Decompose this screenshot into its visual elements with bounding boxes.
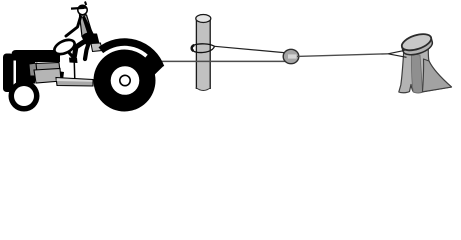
driver hips on seat [82, 33, 96, 42]
driver torso (gray jacket) [80, 15, 93, 37]
wire: rope from tractor drawbar to ring [140, 60, 295, 62]
rear fender [101, 42, 163, 75]
driver legs [69, 39, 90, 64]
stump (tree stump with roots) [399, 31, 452, 93]
steering wheel [52, 37, 77, 60]
driver arm [66, 17, 81, 36]
ring (shackle joining ropes) [283, 49, 299, 63]
wire: rope from post loop to ring [215, 46, 289, 53]
tractor seat [84, 34, 100, 45]
wire: rope from ring to stump [297, 54, 388, 57]
front wheel [9, 81, 40, 112]
engine gray boxes [29, 63, 61, 84]
post (vertical pole) [196, 15, 211, 91]
driver head with cap [71, 2, 87, 15]
running board / step [56, 78, 93, 87]
driver back (black band) [82, 16, 94, 38]
rear wheel [94, 50, 156, 112]
rope wedge wrapped around stump trunk [388, 50, 407, 57]
seat support (gray) [91, 43, 102, 52]
tractor body (hood, chassis) [3, 50, 76, 92]
stump top cut face [400, 31, 433, 54]
stump top rim (cylinder side) [402, 37, 432, 54]
rope loop tied around post [191, 44, 214, 53]
